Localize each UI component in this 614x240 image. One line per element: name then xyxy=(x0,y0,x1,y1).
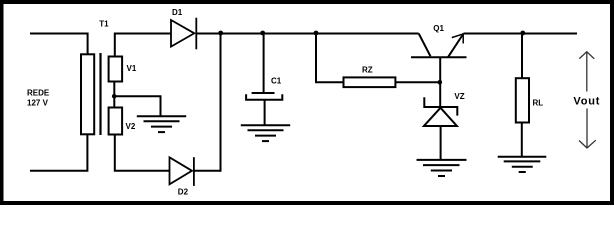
transformer T1 core xyxy=(99,53,101,135)
svg-text:D1: D1 xyxy=(172,8,183,17)
node rectifier junction xyxy=(218,31,223,36)
wire AC input top xyxy=(30,34,88,55)
transistor Q1 xyxy=(411,34,467,58)
svg-text:V1: V1 xyxy=(127,64,137,73)
wire secondary bottom xyxy=(115,135,170,171)
wire secondary top xyxy=(115,34,171,57)
wire RZ left xyxy=(316,34,344,83)
resistor RL xyxy=(516,78,529,122)
node RZ tap xyxy=(314,31,319,36)
node base junction xyxy=(438,80,443,85)
svg-text:REDE: REDE xyxy=(27,88,50,97)
diode D2 xyxy=(170,157,221,186)
wire AC input bottom xyxy=(30,134,87,171)
wire RL top lead xyxy=(521,34,523,79)
svg-text:T1: T1 xyxy=(99,20,109,29)
svg-text:Vout: Vout xyxy=(573,96,600,108)
ground VZ xyxy=(417,160,467,176)
label REDE 127 V xyxy=(27,88,50,107)
svg-text:V2: V2 xyxy=(126,122,136,131)
zener diode VZ xyxy=(424,97,457,160)
ground RL xyxy=(498,157,547,172)
svg-text:C1: C1 xyxy=(271,76,282,85)
diode D1 xyxy=(171,18,196,50)
resistor RZ xyxy=(344,77,396,87)
capacitor C1 xyxy=(246,34,282,125)
output voltage arrow Vout xyxy=(579,52,596,148)
wire RL bottom lead xyxy=(521,123,523,157)
wire D2 cathode riser xyxy=(220,34,222,172)
transformer T1 secondary winding V1 xyxy=(109,57,123,82)
ground transformer center tap xyxy=(137,116,186,132)
transformer T1 secondary winding V2 xyxy=(109,108,123,135)
svg-text:127 V: 127 V xyxy=(27,98,49,107)
wire RZ right xyxy=(395,81,440,83)
node C1 tap xyxy=(260,31,265,36)
svg-text:RL: RL xyxy=(533,98,544,107)
wire base lead xyxy=(439,58,441,107)
svg-text:D2: D2 xyxy=(178,187,189,196)
transformer T1 primary winding xyxy=(81,54,94,134)
svg-text:RZ: RZ xyxy=(362,65,373,74)
svg-text:VZ: VZ xyxy=(454,92,464,101)
node center tap junction xyxy=(112,94,117,99)
node RL tap xyxy=(520,31,525,36)
wire output xyxy=(464,33,578,35)
svg-text:Q1: Q1 xyxy=(433,24,444,33)
ground C1 xyxy=(241,125,290,141)
wire center tap xyxy=(114,82,160,117)
wire rectifier output xyxy=(196,33,418,35)
